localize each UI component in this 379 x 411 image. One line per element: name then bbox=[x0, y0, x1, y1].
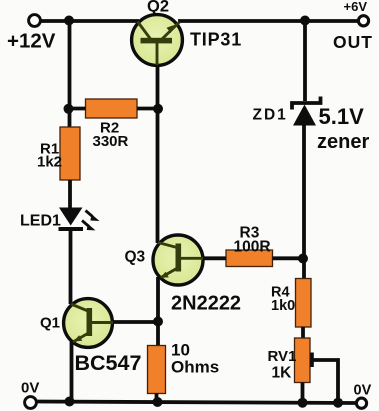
wire LED1 to Q1 collector bbox=[69, 229, 73, 304]
wire RV1 wiper arm bbox=[312, 360, 338, 402]
wire Q2 base to R2 junction and down to Q3 bbox=[156, 65, 160, 243]
RV1 wiper contact bbox=[310, 353, 314, 368]
node junction top-right bbox=[300, 16, 310, 26]
svg-text:100R: 100R bbox=[234, 239, 271, 256]
LED1 light arrow 2 bbox=[82, 221, 96, 231]
svg-text:+12V: +12V bbox=[7, 30, 56, 53]
wire zener to R3/R4 junction bbox=[302, 124, 306, 279]
wire R3 right bbox=[273, 256, 307, 260]
wire R3 left to Q3 base bbox=[203, 256, 226, 260]
node junction R2 left bbox=[64, 104, 74, 114]
svg-text:0V: 0V bbox=[354, 383, 372, 399]
node junction R3/ZD1/R4 bbox=[298, 254, 308, 264]
transistor Q1 base lead right bbox=[92, 321, 114, 324]
svg-text:330R: 330R bbox=[93, 133, 129, 150]
svg-text:RV1: RV1 bbox=[268, 348, 297, 365]
node junction R5 rail bbox=[153, 397, 163, 407]
transistor Q3 emitter lead bbox=[161, 268, 178, 278]
wire top rail left bbox=[40, 19, 139, 23]
svg-text:1K: 1K bbox=[272, 365, 293, 382]
zener ZD1 bar bbox=[292, 97, 321, 110]
node junction RV1 rail bbox=[298, 398, 308, 408]
wire R2 right bbox=[137, 107, 159, 111]
LED1 cathode bar bbox=[59, 227, 84, 231]
svg-text:OUT: OUT bbox=[333, 32, 373, 52]
svg-text:1k2: 1k2 bbox=[37, 154, 62, 171]
svg-text:+6V: +6V bbox=[344, 0, 368, 14]
transistor Q2 collector lead bbox=[138, 22, 151, 40]
terminal 0V right bbox=[356, 398, 366, 408]
svg-text:BC547: BC547 bbox=[75, 351, 142, 375]
resistor R2 bbox=[86, 99, 138, 118]
terminal +12V bbox=[29, 15, 41, 27]
wire right vertical to zener bbox=[303, 21, 307, 102]
transistor Q1 collector lead bbox=[71, 304, 88, 311]
transistor Q2 body bbox=[132, 15, 183, 66]
svg-text:LED1: LED1 bbox=[20, 213, 61, 230]
wire Q1 base to junction bbox=[113, 320, 159, 324]
svg-text:1k0: 1k0 bbox=[271, 298, 295, 314]
transistor Q2 emitter lead bbox=[162, 22, 180, 39]
wire Q3 emitter down bbox=[156, 277, 160, 347]
svg-text:TIP31: TIP31 bbox=[190, 30, 242, 50]
svg-text:ZD1: ZD1 bbox=[253, 107, 288, 124]
svg-text:Q3: Q3 bbox=[125, 249, 146, 266]
terminal 0V left bbox=[25, 397, 37, 409]
transistor Q3 collector lead bbox=[158, 243, 177, 248]
potentiometer RV1 bbox=[295, 338, 311, 383]
wire R1 to LED1 bbox=[68, 180, 72, 208]
transistor Q3 body bbox=[153, 235, 203, 285]
transistor Q1 body bbox=[64, 299, 113, 348]
svg-text:zener: zener bbox=[317, 131, 369, 153]
LED1 light arrow 1 bbox=[86, 211, 100, 222]
resistor R4 bbox=[296, 279, 312, 328]
node junction Q1 emitter rail bbox=[65, 397, 75, 407]
wire R2 left bbox=[68, 107, 86, 111]
resistor R1 bbox=[60, 127, 80, 180]
svg-text:Q2: Q2 bbox=[147, 0, 169, 16]
transistor Q2 emitter arrow bbox=[167, 25, 175, 33]
zener ZD1 triangle bbox=[293, 105, 316, 126]
wire left vertical upper bbox=[68, 21, 72, 129]
transistor Q2 base bar bbox=[141, 38, 173, 44]
svg-text:2N2222: 2N2222 bbox=[171, 293, 241, 315]
wire R4 to RV1 bbox=[301, 327, 305, 339]
LED1 diode triangle bbox=[59, 208, 83, 226]
svg-text:0V: 0V bbox=[21, 380, 39, 397]
transistor Q1 base bar bbox=[87, 308, 93, 336]
transistor Q1 emitter arrow bbox=[74, 335, 83, 341]
wire RV1 bottom to rail bbox=[301, 383, 305, 403]
transistor Q3 base lead right bbox=[181, 257, 204, 260]
wire Q1 emitter down to rail bbox=[70, 342, 74, 402]
wire R5 bottom to rail bbox=[155, 394, 159, 403]
node junction R2 right bbox=[153, 104, 163, 114]
node junction top-left bbox=[64, 16, 74, 26]
transistor Q3 emitter arrow bbox=[160, 272, 169, 278]
transistor Q3 base bar bbox=[176, 244, 182, 272]
svg-text:Ohms: Ohms bbox=[171, 358, 219, 377]
transistor Q2 base lead down bbox=[156, 43, 159, 66]
wire top rail right bbox=[178, 19, 358, 23]
resistor R5 10 Ohms bbox=[148, 346, 166, 394]
transistor Q1 emitter lead bbox=[73, 333, 89, 342]
terminal OUT bbox=[358, 16, 368, 26]
svg-text:Q1: Q1 bbox=[40, 315, 60, 332]
node junction wiper rail bbox=[333, 398, 343, 408]
node junction Q1 base / Q3 emitter / R5 bbox=[153, 317, 163, 327]
wire bottom rail bbox=[36, 402, 356, 404]
svg-text:5.1V: 5.1V bbox=[319, 104, 365, 129]
resistor R3 bbox=[226, 250, 273, 267]
